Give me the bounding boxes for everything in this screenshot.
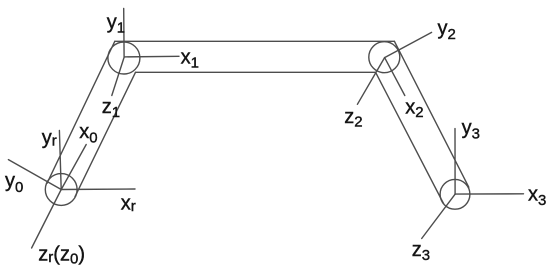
axis x_1 line <box>124 55 179 58</box>
wire link 0-1 left edge <box>47 41 115 183</box>
axis y_0 line <box>8 160 61 190</box>
svg-text:zr(z0): zr(z0) <box>38 243 85 267</box>
joint circle 0 <box>45 174 77 206</box>
axis z_3 line <box>422 194 455 238</box>
axis x_2 line <box>385 58 405 96</box>
wire link 2-3 upper edge <box>394 41 468 187</box>
wire link 0-1 right edge <box>75 72 136 196</box>
axis y_1 line <box>123 9 125 58</box>
joint circle 2 <box>369 42 400 73</box>
axis y_2 line <box>385 32 432 57</box>
axis y_3 line <box>454 129 456 195</box>
axis z_r line <box>32 190 62 249</box>
wire link 2-3 lower edge <box>376 72 444 203</box>
axis y_r line <box>59 131 61 190</box>
axis x_r line <box>61 188 135 191</box>
axis x_3 line <box>455 193 524 195</box>
axis z_2 line <box>357 58 384 105</box>
axis x_0 line <box>61 145 86 190</box>
wire link 1-2 top edge <box>115 40 395 42</box>
axis z_1 line <box>112 57 124 96</box>
joint circle 3 <box>440 179 470 209</box>
joint circle 1 <box>108 42 140 74</box>
wire link 1-2 bottom edge <box>136 71 376 73</box>
